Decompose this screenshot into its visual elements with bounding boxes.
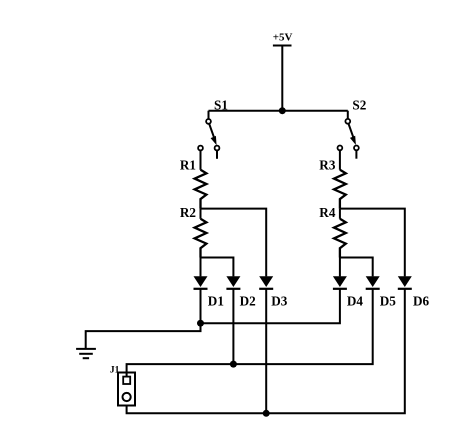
svg-text:D1: D1 <box>208 294 224 309</box>
svg-text:R2: R2 <box>180 205 197 220</box>
svg-text:J1: J1 <box>110 365 120 375</box>
svg-text:D6: D6 <box>413 294 430 309</box>
svg-text:S1: S1 <box>214 97 228 112</box>
svg-text:R3: R3 <box>319 158 336 173</box>
svg-text:S2: S2 <box>352 97 366 112</box>
svg-text:D3: D3 <box>271 294 288 309</box>
svg-text:+5V: +5V <box>273 32 293 44</box>
svg-text:R1: R1 <box>180 158 196 173</box>
svg-text:R4: R4 <box>319 205 336 220</box>
svg-text:D5: D5 <box>380 294 397 309</box>
svg-text:D2: D2 <box>240 294 257 309</box>
svg-text:D4: D4 <box>347 294 364 309</box>
